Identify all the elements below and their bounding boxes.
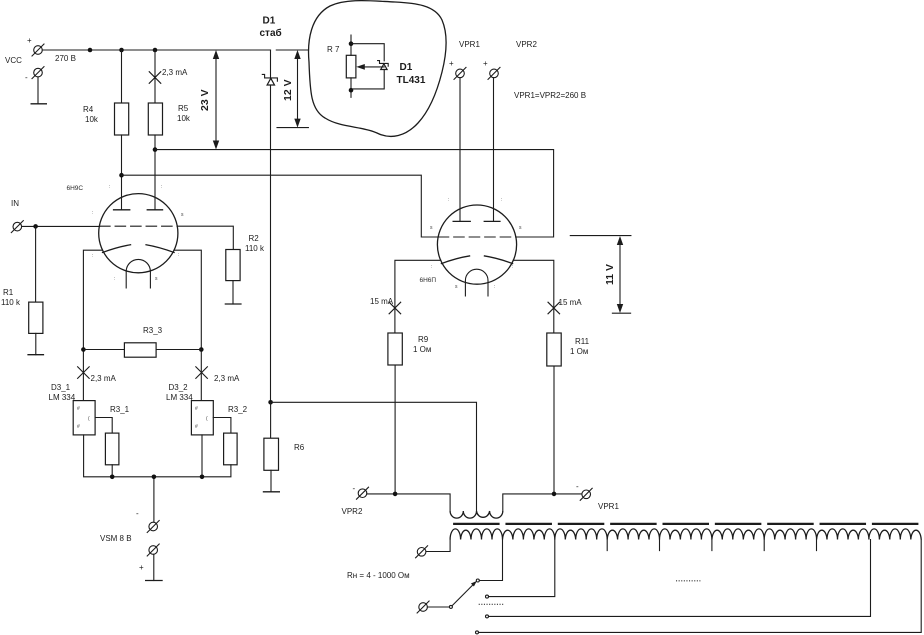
wire top rail: [42, 49, 270, 51]
switch pivot contact: [449, 605, 452, 608]
svg-text::: :: [501, 197, 502, 203]
svg-text:VCC: VCC: [5, 56, 22, 65]
svg-text:D3_1: D3_1: [51, 383, 71, 392]
wire R1 top: [35, 226, 37, 302]
svg-text:+: +: [139, 563, 144, 572]
secondary end to last contact: [479, 540, 921, 633]
svg-text:110 k: 110 k: [1, 298, 21, 307]
terminal VPR1 top: [449, 40, 480, 79]
node cathode/R3_3 left: [81, 347, 86, 352]
svg-text:2,3 mA: 2,3 mA: [162, 68, 188, 77]
triode U1 6N9S envelope: [99, 194, 178, 273]
svg-text:VPR1: VPR1: [598, 502, 619, 511]
U1 plates: [113, 209, 163, 211]
wire primary right: [503, 494, 582, 511]
resistor R1: [1, 288, 43, 333]
terminal IN: [11, 199, 23, 233]
svg-text:+: +: [449, 59, 454, 68]
transformer primary winding: [450, 511, 503, 518]
cloud annotation outline: [309, 1, 447, 137]
wire R4 to plate: [121, 135, 123, 210]
ground under VCC: [31, 77, 48, 104]
svg-text:VPR2: VPR2: [342, 507, 363, 516]
tap stubs 3-7: [607, 540, 816, 551]
svg-text::: :: [448, 197, 449, 203]
svg-text::: :: [92, 253, 93, 259]
tap 1 to switch contact: [480, 540, 503, 581]
svg-text:10k: 10k: [85, 115, 99, 124]
svg-text:#: #: [77, 424, 80, 430]
node on rail: [88, 48, 93, 53]
svg-text:стаб: стаб: [260, 27, 282, 39]
wire VPR2 to plate: [493, 78, 495, 222]
contact circle tap1: [476, 579, 479, 582]
ground under R1: [27, 333, 44, 354]
svg-text:1 Ом: 1 Ом: [570, 347, 588, 356]
svg-text::: :: [114, 276, 115, 282]
contact circle tap2: [486, 595, 489, 598]
terminal VCC+: [27, 36, 44, 56]
wire B (R4 plate to U2 left grid): [122, 175, 439, 237]
wiper arrow into R7: [356, 64, 384, 70]
resistor R3_1: [95, 405, 130, 465]
svg-text:1 Ом: 1 Ом: [413, 345, 431, 354]
wire node to primary centre tap: [271, 402, 477, 511]
wire U1 right cathode: [174, 250, 201, 400]
node bus/R3_1: [110, 475, 115, 480]
svg-text:R4: R4: [83, 105, 94, 114]
svg-text::: :: [494, 284, 495, 290]
svg-text:D3_2: D3_2: [169, 383, 189, 392]
resistor R2: [226, 234, 265, 281]
svg-text:TL431: TL431: [397, 75, 426, 86]
resistor R5: [148, 103, 191, 135]
current marker 2,3 mA left: [78, 367, 117, 383]
ground under R6: [263, 470, 280, 492]
svg-text::: :: [161, 184, 162, 190]
svg-text:D1: D1: [400, 62, 413, 73]
wire U2 left cathode: [395, 260, 441, 333]
svg-text:VPR1: VPR1: [459, 40, 480, 49]
svg-text:LM 334: LM 334: [49, 393, 76, 402]
node R4/wire B: [119, 173, 124, 178]
contact circle tap8: [486, 615, 489, 618]
node rail/R5: [153, 48, 158, 53]
wire VPR1 to plate: [459, 78, 461, 222]
svg-text:2,3 mA: 2,3 mA: [214, 374, 240, 383]
svg-text:6Н6П: 6Н6П: [420, 277, 437, 284]
svg-text:270 В: 270 В: [55, 54, 76, 63]
terminal VSM+: [139, 544, 159, 572]
resistor R3_3: [83, 326, 201, 357]
svg-text:D1: D1: [263, 16, 276, 27]
node cathode/R3_3 right: [199, 347, 204, 352]
wire R11 to primary: [553, 366, 555, 494]
current marker 15 mA right: [548, 298, 582, 314]
transformer secondary winding: [450, 529, 921, 540]
U2 heater: [465, 269, 488, 296]
triode U2 6N6P envelope: [437, 205, 516, 284]
terminal VPR2 top: [483, 40, 537, 79]
svg-text:R9: R9: [418, 335, 429, 344]
current marker 2,3 mA right: [196, 367, 240, 383]
svg-text:+: +: [27, 36, 32, 45]
svg-text:-: -: [25, 73, 28, 82]
contact circle end: [476, 631, 479, 634]
svg-text:R6: R6: [294, 443, 305, 452]
svg-text::: :: [512, 264, 513, 270]
terminal VSM-: [136, 509, 159, 533]
resistor R6: [264, 402, 305, 470]
svg-text::: :: [431, 264, 432, 270]
svg-text:+: +: [483, 59, 488, 68]
svg-text:15 mA: 15 mA: [370, 297, 394, 306]
wire R9 to primary: [394, 365, 396, 494]
wire grid to R2: [177, 226, 233, 249]
svg-text:IN: IN: [11, 199, 19, 208]
wire zener branch (rail to node): [270, 50, 272, 402]
svg-text:#: #: [77, 406, 80, 412]
node primary/R11: [552, 492, 557, 497]
svg-text::: :: [178, 252, 179, 258]
node R7 bottom: [349, 88, 354, 93]
svg-text:#: #: [195, 424, 198, 430]
wire R5 to plate: [154, 135, 156, 210]
svg-text::: :: [92, 210, 93, 216]
svg-text:R3_1: R3_1: [110, 405, 130, 414]
switch arm with arrow: [452, 581, 477, 606]
svg-text:#: #: [195, 406, 198, 412]
wire secondary start: [426, 540, 450, 552]
svg-text:VPR2: VPR2: [516, 40, 537, 49]
svg-text:110 k: 110 k: [245, 244, 265, 253]
wire R4 top: [121, 50, 123, 103]
node rail/R4: [119, 48, 124, 53]
zener diode D1: [262, 74, 277, 85]
node R5/wire A: [153, 147, 158, 152]
current source D3_1 LM334: [49, 383, 96, 435]
terminal VCC-: [25, 67, 44, 82]
svg-text::: :: [109, 184, 110, 190]
U2 grid (dashed): [438, 236, 516, 238]
resistor R9: [388, 333, 432, 365]
wire U2 right cathode: [513, 260, 554, 333]
resistor R7 (potentiometer): [327, 35, 356, 97]
current source D3_2 LM334: [166, 383, 213, 435]
svg-text:12 V: 12 V: [282, 79, 294, 101]
dotted continuation near contacts: [479, 603, 504, 605]
resistor R11: [547, 333, 590, 366]
terminal load select: [417, 601, 429, 613]
U1 cathode arcs: [102, 245, 175, 253]
ground under VSM: [145, 554, 163, 580]
node zener/R6: [268, 400, 273, 405]
wire U1 left cathode: [83, 250, 102, 400]
svg-text:6Н9С: 6Н9С: [67, 185, 84, 192]
U2 plates: [453, 220, 501, 222]
U2 pin marks: [430, 197, 522, 290]
svg-text:R 7: R 7: [327, 45, 340, 54]
svg-text:-: -: [136, 509, 139, 518]
wire IN to grid: [22, 225, 100, 227]
svg-text:LM 334: LM 334: [166, 393, 193, 402]
svg-text:VSM 8 В: VSM 8 В: [100, 534, 132, 543]
svg-text:VPR1=VPR2=260 В: VPR1=VPR2=260 В: [514, 91, 586, 100]
dotted continuation mid taps: [676, 580, 700, 582]
svg-text:R11: R11: [575, 337, 590, 346]
svg-text:23 V: 23 V: [199, 89, 211, 111]
U1 grid (dashed): [100, 225, 178, 227]
current marker 15 mA left: [370, 297, 401, 314]
ground under R2: [225, 281, 242, 304]
node bus/VSM: [152, 475, 157, 480]
wire A (R5 plate to U2 right grid): [155, 150, 554, 237]
svg-text:11 V: 11 V: [604, 264, 616, 285]
terminal VPR2 bottom: [342, 484, 369, 516]
svg-text:R2: R2: [249, 234, 260, 243]
svg-text:10k: 10k: [177, 114, 191, 123]
transformer core: [453, 523, 924, 525]
resistor R4: [83, 103, 129, 135]
svg-text:-: -: [576, 482, 579, 491]
current marker 2,3 mA on R5: [149, 68, 188, 83]
svg-text:-: -: [353, 484, 356, 493]
wire bias bus: [84, 435, 231, 522]
tap 2: [489, 540, 555, 597]
wire VPR2 to primary: [367, 494, 450, 511]
wire R5 top: [154, 50, 156, 103]
svg-text:R5: R5: [178, 104, 189, 113]
wire TL431 loop: [351, 44, 384, 89]
svg-text:Rн = 4 - 1000 Ом: Rн = 4 - 1000 Ом: [347, 571, 410, 580]
node R7 top: [349, 41, 354, 46]
terminal VPR1 bottom: [576, 482, 619, 511]
dimension 23 V: [199, 50, 226, 150]
terminal secondary start: [416, 546, 428, 558]
node bus/D3_2: [200, 475, 205, 480]
dimension 11 V: [570, 236, 631, 314]
U2 cathode arcs: [441, 256, 513, 264]
tap 8 long: [489, 540, 871, 617]
svg-text:R3_2: R3_2: [228, 405, 248, 414]
resistor R3_2: [213, 405, 247, 465]
svg-text:2,3 mA: 2,3 mA: [91, 374, 117, 383]
svg-text:15 mA: 15 mA: [559, 298, 583, 307]
U1 pin marks: [92, 184, 184, 282]
node primary/R9: [393, 492, 398, 497]
dimension 12 V: [276, 50, 308, 128]
node IN/R1: [33, 224, 38, 229]
wire to switch pivot: [427, 606, 449, 608]
svg-text:R3_3: R3_3: [143, 326, 163, 335]
shunt regulator D1 TL431 symbol: [378, 61, 389, 70]
svg-text:R1: R1: [3, 288, 14, 297]
U1 heater: [126, 259, 150, 288]
